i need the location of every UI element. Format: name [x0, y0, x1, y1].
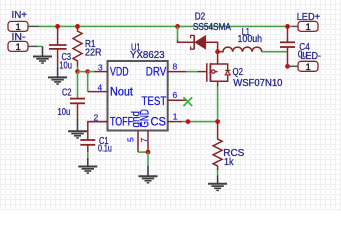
- node junction F (Nout tie): [85, 69, 90, 74]
- svg-text:CS: CS: [151, 114, 167, 128]
- node junction C (D2 tap): [175, 24, 180, 29]
- svg-text:22R: 22R: [85, 48, 102, 59]
- connector P_IN+: [8, 10, 28, 33]
- svg-text:4: 4: [98, 82, 103, 92]
- svg-text:8: 8: [173, 61, 178, 71]
- svg-text:1: 1: [306, 62, 311, 73]
- ground GND2 (C3): [48, 67, 67, 84]
- svg-text:2: 2: [94, 112, 99, 122]
- svg-text:6: 6: [173, 90, 178, 100]
- wire top rail: [39, 25, 292, 27]
- pin stub IN+: [28, 25, 39, 27]
- svg-text:0.1u: 0.1u: [98, 144, 112, 155]
- inductor L1: [218, 47, 262, 52]
- pin stub LED-: [288, 65, 299, 67]
- svg-text:VDD: VDD: [110, 64, 129, 78]
- wire IN- to ground: [38, 45, 43, 47]
- wire L1 to C4: [262, 51, 288, 53]
- wire RCS to ground: [217, 170, 219, 176]
- ground GND5 (C1): [78, 158, 97, 173]
- svg-text:IN-: IN-: [12, 32, 26, 43]
- node junction D (C4/LED+ tap): [285, 24, 290, 29]
- node junction E (VDD row left): [75, 69, 80, 74]
- pin 5 gnd: [137, 131, 139, 152]
- node junction K (LED- tie): [285, 64, 290, 69]
- wire source down to CS row: [217, 87, 219, 122]
- pin 6 TEST: [168, 99, 187, 101]
- wire G down: [147, 152, 149, 166]
- wire DRV to gate: [186, 71, 198, 73]
- resistor RCS: [213, 122, 222, 170]
- ground GND4 (U1): [139, 166, 158, 183]
- svg-text:Nout: Nout: [110, 84, 133, 98]
- wire F down to Nout: [87, 72, 89, 92]
- node junction G (gnd tie): [146, 150, 151, 155]
- svg-text:GND: GND: [137, 109, 151, 128]
- node junction B (R1 tap): [75, 24, 80, 29]
- no-connect X on TEST: [183, 97, 192, 106]
- svg-text:100uh: 100uh: [238, 34, 263, 45]
- wire pin5 to pin7: [138, 151, 148, 153]
- wire C1 to ground: [87, 152, 89, 158]
- transistor Q2: [198, 52, 231, 87]
- resistor R1: [73, 26, 82, 66]
- node junction H (switch node): [215, 49, 220, 54]
- pin stub LED+: [292, 25, 298, 27]
- pin 7 GND: [147, 131, 149, 152]
- wire CS pin to RCS column: [182, 121, 218, 123]
- svg-text:10u: 10u: [58, 107, 71, 118]
- svg-text:D2: D2: [195, 12, 206, 23]
- node junction A (C3 tap): [55, 24, 60, 29]
- capacitor C4: [280, 26, 295, 66]
- svg-text:1k: 1k: [224, 157, 234, 168]
- wire between junctions E-F: [78, 71, 88, 73]
- svg-text:C2: C2: [62, 88, 72, 99]
- IC U1 body: [108, 61, 168, 131]
- capacitor C3: [49, 26, 67, 66]
- node junction I (CS pin end): [186, 119, 191, 124]
- svg-text:SS54SMA: SS54SMA: [193, 22, 231, 33]
- capacitor C2: [70, 72, 85, 119]
- svg-text:IN+: IN+: [12, 10, 28, 21]
- svg-text:WSF07N10: WSF07N10: [233, 78, 283, 89]
- svg-text:5: 5: [125, 137, 135, 142]
- svg-text:10u: 10u: [59, 60, 72, 71]
- wire R1 to VDD node: [77, 67, 79, 72]
- svg-text:LED-: LED-: [301, 51, 322, 62]
- svg-text:1: 1: [16, 42, 21, 53]
- capacitor C1: [80, 122, 107, 153]
- ground GND1 (IN-): [33, 46, 52, 63]
- connector P_LED+: [297, 12, 321, 33]
- connector P_LED-: [298, 51, 321, 73]
- svg-text:YX8623: YX8623: [130, 50, 165, 61]
- diode D2: [178, 26, 218, 51]
- connector P_IN-: [8, 32, 28, 53]
- svg-text:Q2: Q2: [233, 67, 244, 78]
- svg-text:TEST: TEST: [142, 94, 167, 108]
- pin 1 CS: [168, 121, 182, 123]
- svg-text:1: 1: [173, 111, 178, 121]
- ground GND6 (RCS): [208, 176, 227, 191]
- pin 8 DRV: [168, 71, 186, 73]
- svg-text:3: 3: [98, 62, 103, 72]
- svg-text:7: 7: [139, 138, 149, 143]
- pin stub IN-: [28, 45, 38, 47]
- ground GND3 (C2): [68, 118, 87, 138]
- svg-text:DRV: DRV: [146, 64, 166, 78]
- svg-text:1: 1: [306, 22, 311, 33]
- wire F to pin3: [88, 71, 94, 73]
- node junction J (source/RCS): [215, 119, 220, 124]
- pin 4 Nout: [88, 91, 108, 93]
- pin 3 VDD: [94, 71, 108, 73]
- svg-text:LED+: LED+: [297, 12, 321, 23]
- pin 2 TOFF: [88, 121, 108, 123]
